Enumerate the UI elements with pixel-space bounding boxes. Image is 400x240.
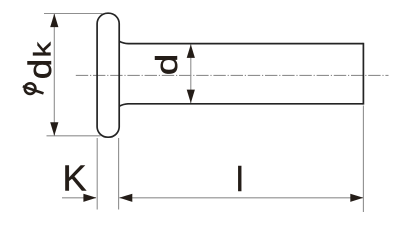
centerline	[76, 74, 389, 76]
d dimension line	[190, 44, 192, 103]
rivet head outline	[97, 13, 119, 137]
K left extension line	[96, 138, 98, 210]
dk dimension line	[53, 14, 55, 136]
dk bottom extension line	[47, 135, 101, 137]
l left-pointing arrowhead (shared K/l)	[119, 194, 132, 202]
dk top extension line	[44, 13, 103, 15]
dk bottom arrowhead	[50, 122, 58, 136]
K dimension line left part	[62, 197, 96, 199]
K right extension line	[118, 138, 120, 210]
dk top arrowhead	[50, 14, 58, 28]
l dimension line	[119, 197, 363, 199]
svg-text:K: K	[63, 158, 87, 199]
l right-pointing arrowhead	[350, 194, 363, 202]
label phi symbol (drawn)	[23, 83, 44, 94]
shank bottom edge with fillet	[119, 104, 363, 107]
d top arrowhead	[187, 44, 195, 58]
svg-text:d: d	[149, 54, 183, 76]
svg-text:l: l	[236, 161, 244, 199]
d bottom arrowhead	[187, 90, 195, 104]
shank top edge with fillet	[119, 41, 363, 43]
K right-pointing arrowhead	[83, 194, 96, 202]
shank right end edge	[362, 43, 364, 105]
svg-text:d: d	[23, 59, 58, 79]
l right extension line	[362, 106, 364, 213]
svg-text:k: k	[29, 42, 56, 58]
